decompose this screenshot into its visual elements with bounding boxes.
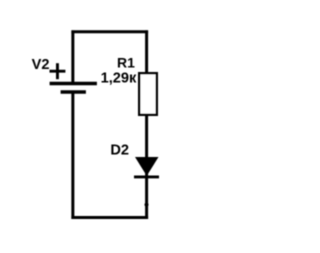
diode D2 cathode bar bbox=[134, 175, 159, 178]
plus polarity symbol bbox=[50, 63, 66, 79]
wire top horizontal bbox=[71, 30, 148, 33]
wire left vertical upper (to battery) bbox=[71, 30, 74, 83]
svg-text:V2: V2 bbox=[32, 57, 50, 73]
wire right vertical bbox=[145, 30, 148, 219]
node junction dot bbox=[145, 203, 149, 207]
resistor R1 body bbox=[139, 73, 157, 115]
svg-text:1,29к: 1,29к bbox=[101, 71, 137, 87]
wire bottom horizontal bbox=[71, 216, 148, 219]
battery V2 negative plate bbox=[61, 90, 86, 93]
diode D2 anode triangle bbox=[135, 157, 159, 176]
svg-text:R1: R1 bbox=[117, 55, 135, 71]
svg-text:D2: D2 bbox=[110, 143, 129, 159]
battery V2 positive plate bbox=[50, 82, 97, 86]
wire left vertical lower (battery to bottom) bbox=[71, 92, 74, 219]
